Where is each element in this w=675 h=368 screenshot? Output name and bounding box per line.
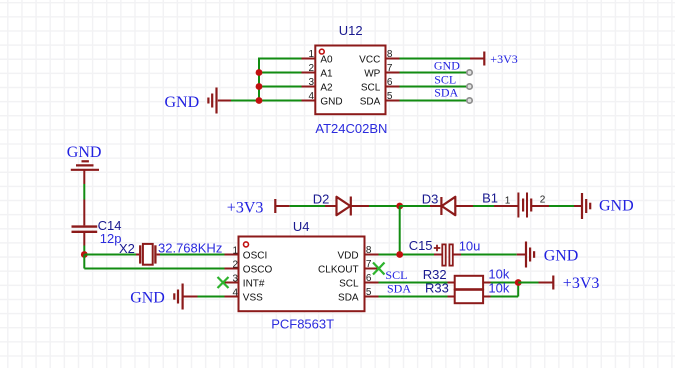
wire VCC U12 to +3V3 xyxy=(400,58,471,60)
svg-text:GND: GND xyxy=(130,290,165,307)
svg-text:SCL: SCL xyxy=(385,268,407,282)
power +3V3 symbol at U12 xyxy=(470,52,484,66)
svg-text:CLKOUT: CLKOUT xyxy=(318,265,359,276)
svg-text:SCL: SCL xyxy=(361,83,381,94)
wire GND net from pin7 U12 xyxy=(400,72,470,74)
svg-text:7: 7 xyxy=(387,63,393,74)
power +3V3 symbol at D2 xyxy=(227,199,290,216)
svg-text:GND: GND xyxy=(434,59,460,73)
svg-text:3: 3 xyxy=(232,273,238,284)
svg-text:X2: X2 xyxy=(119,241,135,256)
net label GND at U12 left xyxy=(165,94,200,111)
value 10k R32 xyxy=(488,266,509,281)
svg-text:+3V3: +3V3 xyxy=(227,199,264,216)
value AT24C02BN xyxy=(315,121,387,136)
svg-text:SDA: SDA xyxy=(360,97,381,108)
svg-text:A0: A0 xyxy=(320,55,333,66)
pin stubs U4 left xyxy=(225,255,239,297)
pin numbers U4 right 8 7 6 5 xyxy=(366,245,372,298)
junction dot pin4 bus xyxy=(256,97,263,104)
svg-text:GND: GND xyxy=(544,248,579,265)
pin number 1 B1 xyxy=(505,195,511,206)
svg-text:10u: 10u xyxy=(459,238,481,253)
wire SDA net from pin5 U12 xyxy=(400,100,470,102)
net label SDA at U4 xyxy=(387,281,411,295)
svg-text:INT#: INT# xyxy=(243,279,265,290)
svg-text:8: 8 xyxy=(366,245,372,256)
svg-text:AT24C02BN: AT24C02BN xyxy=(315,121,387,136)
net label SCL pin6 xyxy=(434,73,456,87)
ground symbol right of B1 xyxy=(574,193,634,219)
diode D3 xyxy=(430,197,473,215)
svg-text:8: 8 xyxy=(387,49,393,60)
wire SCL U4 to R32 xyxy=(379,282,448,284)
svg-text:WP: WP xyxy=(364,69,380,80)
wire GND to C14 xyxy=(83,184,85,200)
designator B1 xyxy=(482,190,498,205)
svg-text:SCL: SCL xyxy=(434,73,456,87)
dangling end dot pin6 xyxy=(467,84,472,89)
pin 1 marker circle U12 xyxy=(319,49,324,54)
pin stubs U12 left xyxy=(302,59,316,101)
wire node down to VDD xyxy=(399,206,401,255)
svg-text:+3V3: +3V3 xyxy=(563,275,600,292)
svg-text:10k: 10k xyxy=(488,281,509,296)
wire X2 to OSCI pin1 U4 xyxy=(160,254,225,256)
dangling end dot pin7 xyxy=(467,70,472,75)
junction node between D2 D3 xyxy=(396,203,403,210)
designator X2 xyxy=(119,241,135,256)
wire net A0 pin1 U12 xyxy=(259,58,302,60)
wire vertical bus left of U12 xyxy=(258,58,260,101)
ground symbol at VSS U4 xyxy=(130,284,197,310)
designator D2 xyxy=(313,191,330,206)
junction node R32 R33 xyxy=(515,279,522,286)
svg-text:GND: GND xyxy=(320,97,342,108)
pin stubs U4 right xyxy=(365,255,379,297)
power +3V3 symbol at R32 xyxy=(539,275,600,292)
designator D3 xyxy=(422,191,439,206)
diode D2 xyxy=(325,197,369,216)
svg-text:D2: D2 xyxy=(313,191,330,206)
ground symbol right of C15 xyxy=(517,242,579,268)
IC U4 body xyxy=(239,237,365,312)
junction dot pin3 bus xyxy=(256,83,263,90)
value PCF8563T xyxy=(271,317,334,332)
svg-text:OSCI: OSCI xyxy=(243,251,267,262)
pin numbers U12 right 8 7 6 5 xyxy=(387,49,393,102)
svg-text:SCL: SCL xyxy=(339,279,359,290)
wire node down to OSCO pin2 U4 xyxy=(84,255,224,269)
svg-text:VDD: VDD xyxy=(337,251,358,262)
designator R32 xyxy=(423,267,447,282)
svg-text:10k: 10k xyxy=(488,266,509,281)
wire node to +3V3 xyxy=(518,282,538,284)
pin names U4 left xyxy=(243,251,273,304)
designator U4 xyxy=(293,219,310,234)
svg-text:VCC: VCC xyxy=(359,55,380,66)
svg-text:VSS: VSS xyxy=(243,293,263,304)
net label SDA pin5 xyxy=(434,86,458,100)
svg-text:1: 1 xyxy=(232,245,238,256)
svg-text:2: 2 xyxy=(232,259,238,270)
crystal X2 xyxy=(136,244,160,265)
pin number 2 B1 xyxy=(540,195,546,206)
value 10u xyxy=(459,238,481,253)
value 32.768KHz xyxy=(158,240,222,255)
wire R32 to +3V3 node xyxy=(491,282,519,284)
svg-text:GND: GND xyxy=(599,198,634,215)
designator U12 xyxy=(339,23,363,38)
designator C14 xyxy=(98,218,122,233)
value 10k R33 xyxy=(488,281,509,296)
wire VDD U4 to C15 xyxy=(379,254,435,256)
no-connect X at INT# pin3 xyxy=(218,277,229,288)
pin 1 marker circle U4 xyxy=(244,242,249,247)
wire D2 cathode to node xyxy=(369,205,400,207)
svg-text:5: 5 xyxy=(366,287,372,298)
value 12p xyxy=(100,231,122,246)
battery B1 xyxy=(494,193,549,218)
pin numbers U4 left 1 2 3 4 xyxy=(232,245,238,298)
svg-text:GND: GND xyxy=(67,144,102,161)
svg-text:2: 2 xyxy=(540,195,546,206)
wire C15 to GND xyxy=(461,254,517,256)
svg-text:C15: C15 xyxy=(409,238,433,253)
svg-text:4: 4 xyxy=(308,91,314,102)
wire SDA U4 to R33 xyxy=(379,296,448,298)
svg-text:A2: A2 xyxy=(320,83,333,94)
svg-text:OSCO: OSCO xyxy=(243,265,273,276)
svg-text:6: 6 xyxy=(387,77,393,88)
svg-text:1: 1 xyxy=(308,49,314,60)
svg-text:D3: D3 xyxy=(422,191,439,206)
wire node to X2 left xyxy=(84,254,136,256)
pin names U12 right xyxy=(359,55,381,108)
wire net A1 pin2 U12 xyxy=(259,72,302,74)
svg-text:6: 6 xyxy=(366,273,372,284)
svg-text:A1: A1 xyxy=(320,69,333,80)
svg-text:32.768KHz: 32.768KHz xyxy=(158,240,222,255)
svg-text:GND: GND xyxy=(165,94,200,111)
svg-text:1: 1 xyxy=(505,195,511,206)
svg-text:3: 3 xyxy=(308,77,314,88)
net label SCL at U4 xyxy=(385,268,407,282)
svg-text:5: 5 xyxy=(387,91,393,102)
svg-text:U4: U4 xyxy=(293,219,310,234)
junction node at C14/X2/OSCI xyxy=(81,251,88,258)
wire R33 up to node xyxy=(491,283,519,297)
pin names U12 left xyxy=(320,55,342,108)
svg-text:7: 7 xyxy=(366,259,372,270)
svg-text:SDA: SDA xyxy=(387,281,411,295)
capacitor C14 xyxy=(72,200,98,246)
net label GND pin7 xyxy=(434,59,460,73)
svg-text:4: 4 xyxy=(232,287,238,298)
wire SCL net from pin6 U12 xyxy=(400,86,470,88)
no-connect X at CLKOUT pin7 xyxy=(373,263,385,275)
svg-text:B1: B1 xyxy=(482,190,498,205)
pin numbers U12 left 1 2 3 4 xyxy=(308,49,314,102)
svg-text:SDA: SDA xyxy=(434,86,458,100)
wire GND to VSS pin4 U4 xyxy=(198,296,225,298)
capacitor C15 xyxy=(434,244,461,265)
wire C14 to OSCI node xyxy=(83,246,85,255)
dangling end dot pin5 xyxy=(467,98,472,103)
junction dot pin2 bus xyxy=(256,69,263,76)
wire net A2 pin3 U12 xyxy=(259,86,302,88)
pin names U4 right xyxy=(318,251,359,304)
resistor R32 xyxy=(448,276,491,289)
pin stubs U12 right xyxy=(386,59,400,101)
wire D3 anode to B1 xyxy=(473,205,494,207)
junction node VDD xyxy=(396,251,403,258)
designator C15 xyxy=(409,238,433,253)
svg-text:+3V3: +3V3 xyxy=(490,52,517,66)
svg-text:R33: R33 xyxy=(425,280,449,295)
wire +3V3 to D2 anode xyxy=(290,205,325,207)
designator R33 xyxy=(425,280,449,295)
wire GND to pin4 U12 xyxy=(231,100,302,102)
net label +3V3 at U12 xyxy=(490,52,517,66)
ground symbol above C14 xyxy=(67,144,102,184)
svg-text:2: 2 xyxy=(308,63,314,74)
svg-text:PCF8563T: PCF8563T xyxy=(271,317,334,332)
svg-text:SDA: SDA xyxy=(338,293,359,304)
wire node to D3 cathode xyxy=(400,205,430,207)
IC U12 body xyxy=(315,46,385,115)
wire B1 to GND xyxy=(549,205,574,207)
svg-text:U12: U12 xyxy=(339,23,363,38)
ground symbol at U12 xyxy=(208,88,231,114)
resistor R33 xyxy=(448,290,491,303)
